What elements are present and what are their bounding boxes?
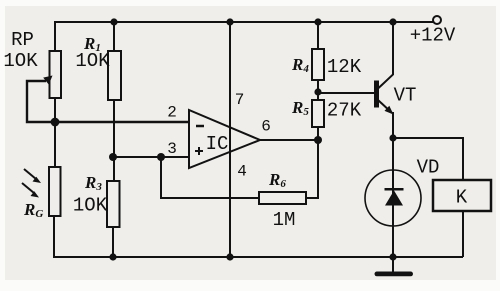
svg-text:12K: 12K [327, 56, 362, 78]
resistor R5 body [312, 100, 324, 127]
junction dot bottom rail at pin4 line [226, 253, 233, 260]
junction dot base node [314, 88, 321, 95]
junction dot output node [314, 136, 322, 144]
wire: collector to +12V rail [378, 22, 393, 89]
wire: relay K bottom lead [462, 211, 464, 257]
junction dot feedback tap on pin3 wire [157, 153, 165, 161]
svg-text:1OK: 1OK [3, 50, 38, 72]
junction dot top rail at pin7 line [226, 18, 233, 25]
wire: RP top lead [54, 21, 56, 51]
svg-text:RP: RP [11, 29, 34, 51]
wire: feedback tap down to R6 [161, 157, 259, 198]
junction dot top rail at R1 [110, 18, 117, 25]
op-amp inverting input minus sign [196, 125, 204, 128]
+12V supply terminal [433, 16, 441, 24]
potentiometer RP wiper arrow [27, 80, 45, 82]
wire: IC power pins 7/4 vertical [229, 22, 231, 257]
wire: RP bottom to RG top [54, 98, 56, 167]
svg-text:3: 3 [167, 140, 177, 158]
wire: VD branch vertical [392, 138, 394, 257]
op-amp non-inverting input plus sign [195, 147, 203, 155]
wire: RP wiper to pin2 horizontal run [27, 81, 189, 122]
svg-text:1M: 1M [273, 209, 296, 231]
svg-text:+12V: +12V [410, 25, 456, 47]
photoresistor RG body [49, 167, 61, 216]
svg-text:1OK: 1OK [75, 50, 110, 72]
wire: R5 bottom lead [317, 127, 319, 140]
resistor R6 body [259, 192, 306, 204]
junction dot top rail at R4 [314, 18, 321, 25]
svg-text:4: 4 [237, 163, 247, 181]
transistor VT emitter arrowhead [385, 106, 394, 115]
junction dot top rail at collector [389, 18, 396, 25]
wire: top +12V rail [55, 21, 433, 23]
wire: pin3 wire [113, 156, 189, 158]
svg-text:VD: VD [417, 157, 440, 179]
wire: emitter node to relay K [393, 138, 463, 180]
wire: R4 top lead [317, 22, 319, 49]
svg-text:27K: 27K [327, 100, 362, 122]
wire: R6 right lead up to output node [306, 140, 318, 198]
junction dot bottom rail at R3 [109, 253, 116, 260]
wire: RG bottom to ground rail [54, 216, 463, 257]
potentiometer RP body [50, 51, 62, 98]
wire: R1-R3 column [113, 22, 114, 257]
svg-text:7: 7 [235, 91, 245, 109]
diode VD triangle [385, 191, 403, 206]
resistor R4 body [312, 49, 324, 80]
svg-text:VT: VT [394, 85, 417, 107]
diode VD cathode bar [385, 188, 404, 191]
protection diode VD circle [365, 170, 421, 226]
light arrow 2 [22, 183, 34, 193]
svg-text:6: 6 [261, 118, 271, 136]
svg-text:IC: IC [206, 133, 229, 155]
wire: op-amp output to node [260, 139, 318, 141]
transistor VT base bar [374, 81, 379, 108]
junction dot R1/R3 tap on pin3 wire [109, 153, 117, 161]
wire: base wire [318, 92, 374, 94]
wire: emitter diagonal [378, 100, 392, 113]
resistor R3 body [107, 181, 120, 227]
junction dot bottom rail at ground [389, 253, 396, 260]
svg-text:2: 2 [167, 104, 177, 122]
junction dot emitter node [389, 134, 396, 141]
wire: R4-R5 junction leads [317, 80, 319, 100]
ground symbol [392, 257, 394, 272]
svg-text:1OK: 1OK [73, 195, 108, 217]
relay K body [433, 180, 491, 211]
op-amp IC triangle [189, 110, 260, 168]
junction dot RP/RG tap on pin2 wire [51, 118, 60, 127]
wire: emitter down to node [392, 112, 394, 138]
svg-text:K: K [456, 187, 468, 209]
light arrow 1 [24, 169, 36, 179]
resistor R1 body [108, 51, 121, 100]
